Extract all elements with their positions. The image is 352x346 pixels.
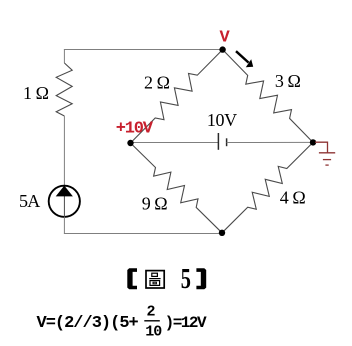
svg-text:5A: 5A — [19, 191, 40, 211]
wire left vertical upper segment — [63, 50, 65, 64]
current source I1 5A circle — [49, 186, 80, 217]
node V (top) — [219, 46, 225, 52]
caption left bracket (CJK lenticular) — [127, 268, 137, 289]
wire left vertical lower segment — [63, 217, 65, 234]
resistor R 1-ohm zigzag (left branch) — [56, 63, 72, 116]
node bottom — [219, 230, 225, 236]
wire middle left (node +10V to battery) — [131, 142, 219, 144]
wire middle right (battery to right node) — [227, 141, 313, 143]
svg-text:3 Ω: 3 Ω — [275, 71, 301, 91]
svg-text:+10V: +10V — [116, 120, 154, 139]
svg-text:4 Ω: 4 Ω — [280, 187, 306, 207]
svg-text:)=12V: )=12V — [165, 314, 207, 332]
svg-text:2 Ω: 2 Ω — [144, 73, 170, 93]
resistor R 4-ohm (right node to bottom node) — [222, 142, 313, 232]
current source internal wire — [63, 196, 65, 217]
resistor R 2-ohm (top node to +10V node) — [131, 50, 223, 143]
wire top horizontal from left branch to node V — [64, 49, 223, 51]
svg-text:1 Ω: 1 Ω — [23, 83, 49, 103]
svg-text:V=(2//3)(5+: V=(2//3)(5+ — [37, 314, 139, 333]
formula fraction bar — [144, 320, 160, 322]
caption character TU (figure) — [146, 271, 164, 288]
resistor R 3-ohm (top node to right node) — [223, 50, 313, 143]
node +10V (left middle) — [127, 140, 133, 146]
battery V1 short plate — [226, 138, 228, 146]
svg-text:10V: 10V — [207, 110, 237, 130]
resistor R 9-ohm (+10V node to bottom node) — [131, 143, 223, 233]
current source arrow (upward triangle) — [56, 186, 73, 197]
svg-text:9 Ω: 9 Ω — [142, 194, 168, 214]
wire bottom horizontal to bottom node — [64, 233, 222, 235]
wire left vertical middle segment — [63, 116, 65, 186]
svg-text:5: 5 — [181, 264, 191, 295]
current direction arrow at node V — [236, 51, 249, 62]
battery V1 long plate — [217, 133, 219, 150]
caption right bracket (CJK lenticular) — [196, 268, 206, 289]
node right (ground node) — [310, 139, 316, 145]
ground symbol (dark red) — [315, 142, 335, 165]
svg-text:V: V — [220, 28, 231, 47]
svg-text:2: 2 — [147, 304, 156, 321]
svg-text:10: 10 — [145, 323, 162, 340]
